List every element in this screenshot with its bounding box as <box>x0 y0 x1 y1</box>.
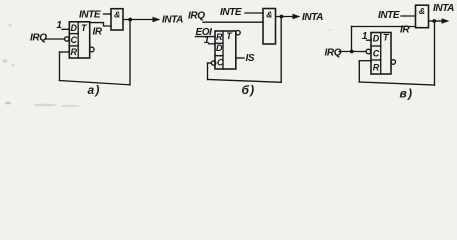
wire IRQ to C <box>339 51 366 53</box>
wire feedback right vertical <box>129 20 131 85</box>
svg-text:C: C <box>373 49 380 59</box>
wire 1 to D <box>367 39 372 41</box>
svg-text:C: C <box>217 57 224 67</box>
wire INTE to AND <box>401 15 416 17</box>
svg-text:&: & <box>419 6 425 16</box>
svg-text:INTA: INTA <box>302 12 323 23</box>
svg-text:INTE: INTE <box>79 10 101 21</box>
svg-text:INTA: INTA <box>433 3 454 14</box>
inverted output bubble <box>391 60 396 65</box>
arrowhead INTA <box>153 17 161 22</box>
wire INTE to AND <box>104 13 112 15</box>
inverted output bubble <box>236 31 240 35</box>
svg-text:б): б) <box>242 83 256 97</box>
wire feedback to C bubble <box>208 62 212 64</box>
wire IS output <box>236 57 244 59</box>
svg-text:IRQ: IRQ <box>325 48 342 59</box>
junction dot <box>350 50 354 54</box>
wire feedback up to R <box>358 61 360 82</box>
wire 1 to D <box>209 43 216 45</box>
svg-text:D: D <box>71 23 78 33</box>
wire IR top horizontal <box>352 26 416 28</box>
and-gate DD2 <box>263 9 276 45</box>
wire IRQ to C <box>45 38 65 40</box>
flip-flop T3 box <box>371 33 391 75</box>
svg-text:D: D <box>373 34 380 44</box>
svg-text:INTA: INTA <box>162 15 183 26</box>
wire INTE to AND <box>245 12 263 14</box>
wire AND output <box>124 19 154 21</box>
paper background <box>0 0 457 112</box>
svg-text:R: R <box>216 32 223 42</box>
svg-text:а): а) <box>88 83 101 97</box>
flip-flop T1 box <box>69 22 89 58</box>
wire 1 to D <box>62 28 69 30</box>
wire feedback bottom <box>60 81 131 85</box>
wire R input <box>359 60 371 62</box>
wire IRQ to AND <box>203 21 263 23</box>
svg-text:INTE: INTE <box>220 7 242 18</box>
svg-text:IRQ: IRQ <box>30 33 47 44</box>
junction dot <box>280 15 284 19</box>
wire R input <box>60 51 70 53</box>
svg-text:в): в) <box>400 87 414 101</box>
wire feedback right vertical <box>434 21 436 85</box>
and-gate DD1 <box>111 9 123 30</box>
junction dot <box>432 19 436 23</box>
svg-text:IR: IR <box>400 25 410 36</box>
wire feedback bottom <box>359 82 434 85</box>
wire feedback vertical <box>351 27 353 52</box>
svg-text:IR: IR <box>93 27 103 38</box>
flip-flop T2 box <box>215 31 236 69</box>
svg-text:D: D <box>216 43 223 53</box>
wire IR <box>90 23 111 26</box>
inversion bubble at C input <box>65 37 69 41</box>
svg-text:R: R <box>71 47 78 57</box>
wire EOI to R <box>196 36 216 38</box>
svg-text:IS: IS <box>246 53 255 64</box>
inverted output bubble <box>90 47 95 52</box>
wire AND output <box>429 20 443 22</box>
svg-text:&: & <box>266 9 272 19</box>
wire AND output <box>276 16 294 18</box>
wire feedback right vertical <box>280 17 282 83</box>
wire feedback left vertical <box>59 52 61 81</box>
svg-text:INTE: INTE <box>378 10 400 21</box>
inversion bubble at C input <box>211 61 215 65</box>
wire feedback left vertical <box>207 63 209 80</box>
wire feedback bottom <box>208 80 282 83</box>
inversion bubble at C input <box>366 49 371 54</box>
arrowhead INTA <box>442 18 450 23</box>
arrowhead INTA <box>293 14 301 19</box>
svg-text:IRQ: IRQ <box>188 10 205 21</box>
svg-text:R: R <box>373 63 380 73</box>
and-gate DD3 <box>416 5 429 28</box>
svg-text:&: & <box>114 9 120 19</box>
junction dot <box>128 18 132 22</box>
svg-text:C: C <box>71 35 78 45</box>
